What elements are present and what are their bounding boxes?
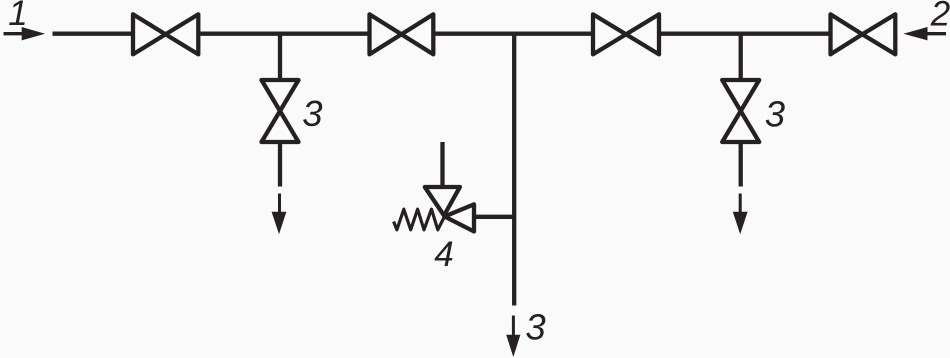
wire main line segment D — [661, 32, 831, 36]
node left outlet arrow — [272, 194, 287, 235]
relief valve spring — [394, 209, 445, 230]
wire center drop — [512, 34, 516, 306]
svg-text:1: 1 — [8, 0, 27, 33]
wire main line segment B — [200, 32, 369, 36]
svg-text:3: 3 — [525, 307, 545, 348]
node center outlet arrow — [506, 316, 520, 358]
wire right branch drop — [739, 34, 743, 80]
svg-text:3: 3 — [302, 93, 322, 134]
node 1 inlet arrow — [4, 27, 46, 40]
svg-text:4: 4 — [434, 235, 453, 274]
wire main line segment A — [53, 32, 132, 36]
relief valve PSV down triangle — [425, 187, 460, 216]
wire main line segment C — [435, 32, 593, 36]
node right outlet arrow — [733, 194, 748, 235]
svg-text:2: 2 — [930, 0, 950, 33]
relief valve PSV left-pointing triangle — [445, 204, 475, 231]
valve V1 — [133, 14, 198, 54]
valve V6 right branch — [722, 80, 759, 142]
wire relief valve stub — [440, 142, 444, 187]
wire relief valve to center pipe — [474, 215, 514, 219]
valve V3 — [593, 14, 659, 54]
svg-text:3: 3 — [765, 93, 785, 134]
node 2 inlet arrow — [903, 27, 946, 40]
wire left branch outlet — [278, 142, 282, 187]
valve V2 — [370, 14, 434, 54]
valve V5 left branch — [262, 80, 299, 142]
wire left branch drop — [278, 34, 282, 80]
wire right branch outlet — [739, 142, 743, 187]
valve V4 — [831, 14, 896, 54]
